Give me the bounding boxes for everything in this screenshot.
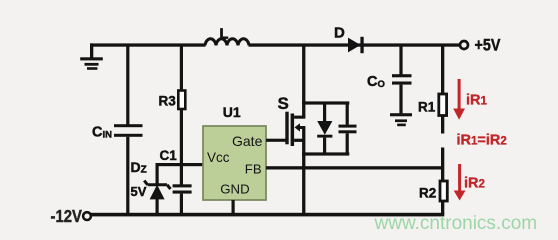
wire bottom rail [91,213,444,217]
svg-text:www.cntronics.com: www.cntronics.com [374,213,538,234]
terminal -12V [83,212,91,220]
svg-text:FB: FB [245,162,262,177]
svg-text:iR2: iR2 [464,176,485,192]
svg-text:U1: U1 [223,104,241,120]
wire parallel net bottom [302,152,349,155]
wire Vcc node horizontal [156,163,204,166]
wire R2 branch upper (after break) [441,148,444,182]
svg-text:D: D [334,25,345,42]
svg-text:R3: R3 [159,94,177,109]
svg-text:GND: GND [220,182,249,197]
resistor R3 [178,91,185,110]
capacitor CIN [114,124,143,214]
svg-text:5V: 5V [131,184,147,199]
svg-text:iR1: iR1 [466,93,488,109]
svg-text:L: L [220,26,229,42]
svg-text:S: S [278,94,289,113]
current arrow iR1 [453,79,465,120]
wire R3 branch upper [180,45,183,91]
inductor L [205,39,249,45]
svg-text:Vcc: Vcc [207,150,230,165]
wire top rail right segment [249,43,461,46]
current arrow iR2 [454,164,466,201]
svg-text:R1: R1 [418,100,436,115]
svg-text:R2: R2 [419,186,436,201]
wire drain vertical [302,45,305,119]
ground [80,43,103,69]
capacitor across S [339,103,357,153]
wire gate pin [266,139,286,142]
wire R1 lower (to break) [441,116,444,134]
capacitor C1 [173,166,192,214]
transistor S (p-MOSFET) [285,112,305,146]
wire source vertical [302,126,305,214]
body diode [317,103,332,154]
svg-text:iR1=iR2: iR1=iR2 [457,133,507,149]
wire R1 branch upper [441,45,444,94]
wire R3 to Vcc node [180,109,183,165]
capacitor CO [392,45,412,113]
wire parallel net top [302,101,349,104]
wire top rail left segment [90,43,206,46]
zener diode DZ [144,164,170,214]
IC U1 box [203,126,266,200]
terminal +5V [460,41,468,49]
resistor R1 [439,94,447,116]
svg-text:C1: C1 [160,148,178,163]
wire GND pin [232,200,235,214]
ground under CO [390,113,412,126]
svg-text:-12V: -12V [51,207,83,226]
svg-text:Gate: Gate [232,133,263,149]
wire R2 lower [441,201,444,214]
resistor R2 [440,181,447,201]
wire FB [266,166,444,169]
svg-text:+5V: +5V [475,36,502,54]
diode D [348,37,364,53]
wire CIN branch upper [126,45,129,125]
